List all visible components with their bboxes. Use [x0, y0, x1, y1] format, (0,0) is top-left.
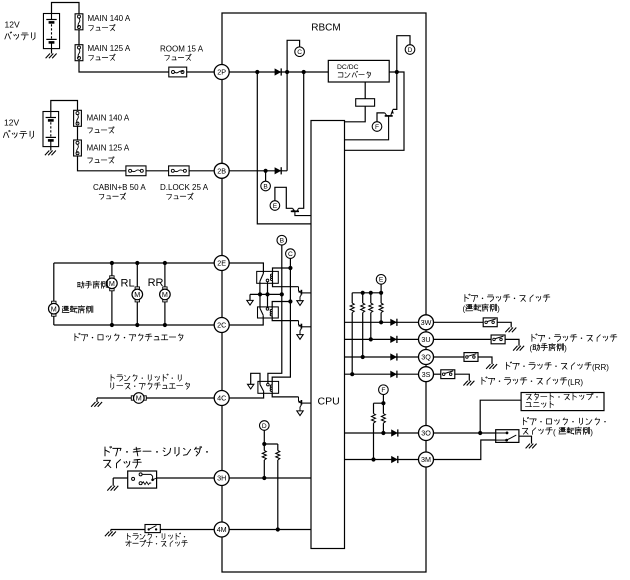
- svg-text:3O: 3O: [421, 429, 431, 438]
- wire 3M line: [345, 459, 419, 461]
- ground arrow relay bus: [247, 300, 253, 305]
- fuse MAIN 140 A F1: [75, 14, 83, 30]
- label door latch switch driver: [465, 294, 550, 302]
- wire latch RR to ground: [478, 357, 493, 364]
- ground latch RR: [486, 364, 497, 369]
- label battery1: [5, 32, 35, 40]
- relay coil K3: [270, 385, 272, 392]
- wire node E hook to Q2: [275, 187, 293, 208]
- svg-text:): ): [590, 428, 593, 437]
- ground trunk actuator: [91, 402, 102, 407]
- diode D2 on 2B line: [275, 167, 282, 174]
- node F label top: [372, 122, 382, 132]
- svg-text:(LR): (LR): [568, 378, 584, 387]
- wire 3M to link switch: [434, 440, 496, 460]
- wire node E stub: [380, 284, 382, 293]
- connector 2P: [214, 65, 229, 80]
- switch SW2 trunk lid opener: [145, 525, 160, 533]
- connector 3M: [419, 452, 434, 467]
- fuse ROOM 15 A F3: [169, 67, 187, 77]
- resistor R2: [262, 451, 266, 461]
- svg-text:M: M: [51, 304, 57, 313]
- svg-text:M: M: [162, 290, 168, 299]
- wire 3O to link switch: [434, 432, 496, 434]
- ground arrow Q4 emitter: [297, 335, 303, 340]
- diode D5 3Q: [390, 353, 397, 360]
- wire DC/DC resistor leads: [345, 82, 366, 122]
- svg-text:ROOM 15 A: ROOM 15 A: [160, 45, 204, 54]
- motor M2 passenger side: [107, 276, 118, 291]
- battery B2 12V: [43, 112, 59, 147]
- ground latch driver: [505, 328, 516, 333]
- svg-text:F: F: [375, 124, 379, 131]
- diode D7 3O: [391, 429, 398, 436]
- svg-text:CPU: CPU: [318, 396, 340, 408]
- wire 3S line: [345, 373, 419, 375]
- node D label top: [405, 45, 415, 55]
- svg-text:MAIN 125 A: MAIN 125 A: [88, 44, 131, 53]
- resistor R4: [350, 303, 354, 313]
- wire K3 arm to ground arrow: [251, 373, 260, 384]
- svg-text:MAIN 140 A: MAIN 140 A: [87, 114, 130, 123]
- wire R6 leads: [370, 293, 372, 340]
- connector 3U: [419, 332, 434, 347]
- wire 2B line: [229, 170, 287, 172]
- svg-text:RBCM: RBCM: [311, 23, 340, 34]
- wire RL motor leads: [136, 263, 138, 325]
- switch door latch RR: [464, 353, 478, 362]
- ground arrow relay K3: [248, 384, 254, 389]
- connector 2C: [214, 318, 229, 333]
- switch SW3 door lock link: [496, 430, 519, 443]
- wire relay ground bus: [250, 293, 282, 295]
- svg-text:B: B: [263, 183, 268, 190]
- wire battery1 to MAIN fuse 1: [52, 3, 80, 14]
- wire 3O to start stop unit: [480, 400, 521, 433]
- node B label mid: [277, 235, 287, 245]
- label driver side: [62, 306, 93, 313]
- resistor R9: [381, 414, 385, 424]
- svg-text:(RR): (RR): [592, 363, 609, 372]
- ground latch passenger: [513, 346, 524, 351]
- wire trunk actuator ground stem: [96, 398, 98, 402]
- switch SW1 door key cylinder: [128, 471, 157, 488]
- svg-text:B: B: [280, 238, 285, 245]
- node D label bottom: [260, 421, 270, 431]
- resistor R1 (box style): [356, 99, 375, 107]
- svg-text:12V: 12V: [5, 20, 20, 30]
- transistor Q4: [298, 321, 311, 335]
- svg-text:D: D: [408, 47, 413, 54]
- wire 2P to DC/DC converter: [229, 71, 328, 73]
- wire passenger motor leads: [111, 263, 113, 325]
- wire driver motor leads: [53, 263, 55, 325]
- svg-text:2P: 2P: [217, 68, 226, 77]
- svg-text:M: M: [109, 279, 115, 288]
- relay K3 box: [258, 381, 279, 393]
- wire 3U to latch switch: [434, 338, 492, 340]
- wire 3W to latch switch: [434, 321, 484, 323]
- connector 3Q: [419, 350, 434, 365]
- wire 2C bus to actuators: [54, 324, 214, 326]
- label trunk lid release actuator: [111, 374, 181, 381]
- svg-text:3S: 3S: [422, 370, 431, 379]
- motor M1 driver side: [49, 301, 60, 316]
- wire MAIN fuse to ROOM fuse: [79, 61, 169, 72]
- connector 2E: [214, 256, 229, 271]
- connector 4C: [214, 391, 229, 406]
- resistor R3: [276, 451, 280, 461]
- wire node B stub: [265, 171, 267, 181]
- connector 2B: [214, 163, 229, 178]
- node C label top: [295, 47, 305, 57]
- label door latch switch passenger: [532, 334, 617, 342]
- relay K1 box: [257, 271, 279, 283]
- wire trunk opener switch leads: [111, 529, 214, 531]
- wire ROOM fuse to 2P: [187, 71, 215, 73]
- ground arrow Q5 emitter: [297, 411, 303, 416]
- node E label top: [270, 201, 280, 211]
- svg-text:12V: 12V: [4, 118, 19, 128]
- wire 3S to latch switch: [434, 373, 441, 375]
- wire latch passenger to ground: [505, 339, 519, 345]
- diode D3 3W: [390, 319, 397, 326]
- wire node D tap: [397, 36, 410, 72]
- wire K2 coil to node C line: [272, 302, 290, 310]
- wire node F resistor network: [374, 395, 384, 460]
- svg-text:3W: 3W: [421, 318, 432, 327]
- wire R4 leads: [351, 293, 353, 374]
- connector 3O: [419, 426, 434, 441]
- wire R5 leads: [362, 293, 364, 357]
- svg-text:4C: 4C: [217, 394, 226, 403]
- svg-text:M: M: [134, 290, 140, 299]
- resistor R8: [372, 414, 376, 424]
- resistor R5: [361, 303, 365, 313]
- svg-text:): ): [564, 344, 567, 353]
- wire link switch to ground: [519, 436, 532, 443]
- wire node C line to relay K3 coil: [272, 258, 290, 385]
- label start stop unit: [526, 393, 592, 400]
- wire node D resistor network: [264, 430, 278, 529]
- wire battery1 to ground: [51, 49, 53, 54]
- transistor Q5: [298, 397, 311, 411]
- ground latch LR: [463, 381, 474, 386]
- label trunk lid opener switch: [127, 533, 180, 540]
- transistor Q1: [345, 109, 394, 139]
- svg-text:M: M: [136, 394, 142, 403]
- wire trunk actuator leads: [97, 397, 214, 399]
- wire node C tap: [287, 40, 300, 72]
- motor M3 RL: [132, 287, 143, 302]
- svg-text:D: D: [262, 423, 267, 430]
- wire 2C from relay K2: [229, 316, 263, 325]
- diode D8 3M: [391, 456, 398, 463]
- ground battery1: [46, 54, 57, 59]
- relay coil K1: [270, 274, 272, 281]
- wire CABIN fuse to D.LOCK fuse: [146, 170, 169, 172]
- wire 3Q line: [345, 356, 419, 358]
- wire RR motor leads: [164, 263, 166, 325]
- RBCM unit box: [222, 13, 426, 572]
- switch door latch LR: [441, 370, 455, 379]
- relay K3 switch: [260, 384, 264, 391]
- label door lock link switch: [523, 417, 599, 425]
- node F label bottom: [379, 385, 389, 395]
- wire latch LR to ground: [454, 374, 469, 381]
- wire K1 contact to bus: [267, 282, 269, 295]
- connector 3S: [419, 367, 434, 382]
- svg-text:3H: 3H: [217, 474, 226, 483]
- wire 3H to CPU: [229, 477, 311, 479]
- relay K2 box: [258, 307, 279, 318]
- wire bus to K2 arm: [259, 294, 261, 308]
- wire K1 coil to node C: [273, 268, 291, 274]
- wire E pullup bus: [352, 292, 381, 294]
- wire 4M to CPU: [229, 529, 311, 531]
- wire K1 coil to Q3: [273, 281, 299, 287]
- svg-text:RR: RR: [148, 277, 164, 289]
- svg-text:RL: RL: [121, 277, 135, 289]
- wire K2 coil to Q4: [272, 316, 298, 321]
- label door lock actuator: [75, 333, 183, 341]
- wire 3W line: [345, 321, 419, 323]
- svg-text:(: (: [553, 428, 556, 437]
- relay coil K2: [270, 309, 272, 316]
- node E label right: [376, 275, 386, 285]
- wire 3Q to latch switch: [434, 356, 465, 358]
- wire K3 coil to Q5: [272, 392, 298, 397]
- motor M4 RR: [160, 287, 171, 302]
- svg-text:4M: 4M: [217, 525, 227, 534]
- label passenger side: [77, 281, 107, 288]
- relay K2 switch: [260, 308, 263, 315]
- wire between MAIN fuses: [78, 30, 80, 45]
- label door key cylinder switch: [105, 446, 202, 456]
- diode D1 on 2P line: [275, 68, 282, 75]
- wire node B line to relay K3: [268, 245, 282, 383]
- wire 3O line: [345, 432, 419, 434]
- svg-text:MAIN 140 A: MAIN 140 A: [88, 14, 131, 23]
- wire battery2 to MAIN fuse 3: [51, 101, 78, 112]
- wire Q1 collector feed: [393, 72, 397, 109]
- svg-text:(: (: [463, 305, 466, 314]
- ground key cylinder switch: [107, 486, 118, 491]
- fuse MAIN 125 A F5: [74, 140, 82, 156]
- wire bus to K2 contact: [267, 294, 269, 307]
- wire 2E into relay K1: [229, 263, 263, 273]
- svg-text:D.LOCK 25 A: D.LOCK 25 A: [160, 183, 209, 192]
- switch door latch passenger: [491, 335, 505, 344]
- wire between MAIN fuses 2: [77, 126, 79, 140]
- ground arrow Q3 emitter: [297, 301, 303, 306]
- wire 3U line: [345, 338, 419, 340]
- wire node F hook to Q1: [377, 113, 385, 122]
- transistor Q2: [291, 208, 311, 215]
- svg-text:(: (: [530, 344, 533, 353]
- wire bus ground stem: [249, 294, 251, 300]
- start stop unit box: [521, 393, 604, 411]
- wire opener ground stem: [110, 530, 112, 532]
- wire K3 common to 4C: [229, 391, 263, 398]
- wire key cyl ground stem: [112, 478, 114, 486]
- fuse D.LOCK 25 A F7: [169, 166, 190, 176]
- svg-text:MAIN 125 A: MAIN 125 A: [87, 144, 130, 153]
- connector 4M: [214, 522, 229, 537]
- wire 2P power to CPU: [257, 72, 311, 224]
- fuse MAIN 125 A F2: [75, 45, 83, 61]
- ground trunk opener switch: [105, 532, 116, 537]
- wire 2P-2B tie: [286, 72, 288, 171]
- svg-text:DC/DC: DC/DC: [337, 64, 359, 71]
- fuse MAIN 140 A F4: [74, 110, 82, 126]
- DC/DC converter U1: [328, 60, 389, 82]
- svg-text:3M: 3M: [421, 455, 431, 464]
- svg-text:): ): [497, 305, 500, 314]
- svg-text:2B: 2B: [217, 166, 226, 175]
- diode D4 3U: [390, 336, 397, 343]
- fuse CABIN+B 50 A F6: [126, 166, 146, 176]
- wire key cylinder switch leads: [113, 477, 214, 479]
- svg-text:C: C: [288, 251, 293, 258]
- svg-text:3U: 3U: [421, 335, 430, 344]
- switch door latch driver: [483, 318, 497, 327]
- svg-text:CABIN+B 50 A: CABIN+B 50 A: [93, 183, 146, 192]
- ground battery2: [45, 151, 56, 156]
- CPU box U2: [311, 121, 345, 549]
- ground link switch: [526, 444, 537, 449]
- wire 2E bus to actuators: [54, 262, 214, 264]
- wire C line to Q2 collector: [299, 72, 304, 208]
- battery B1 12V: [43, 14, 59, 49]
- transistor Q3: [298, 287, 311, 301]
- label battery2: [3, 130, 33, 138]
- node C label mid: [286, 249, 296, 259]
- svg-text:F: F: [381, 387, 385, 394]
- resistor R7: [379, 303, 383, 313]
- connector 3W: [419, 315, 434, 330]
- svg-text:E: E: [273, 203, 278, 210]
- wire DC/DC out to CPU: [345, 72, 405, 150]
- relay K1 switch: [260, 273, 264, 281]
- wire MAIN fuse to CABIN+B fuse: [78, 156, 126, 171]
- wire battery2 to ground: [50, 147, 52, 151]
- svg-text:2E: 2E: [217, 259, 226, 268]
- svg-text:C: C: [297, 49, 302, 56]
- diode D6 3S: [390, 371, 397, 378]
- wire R7 leads: [380, 293, 382, 323]
- connector 3H: [214, 471, 229, 486]
- node B label top: [261, 181, 271, 191]
- wire K1 common to ground bus: [259, 281, 261, 294]
- resistor R6: [369, 303, 373, 313]
- svg-text:3Q: 3Q: [421, 353, 431, 362]
- wire D.LOCK fuse to 2B: [189, 170, 214, 172]
- svg-text:2C: 2C: [217, 321, 226, 330]
- wire latch driver to ground: [497, 322, 511, 327]
- motor M5 trunk release: [131, 393, 146, 404]
- svg-text:E: E: [379, 277, 384, 284]
